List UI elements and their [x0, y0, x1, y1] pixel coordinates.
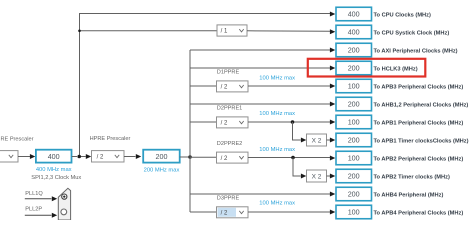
svg-text:To AXI Peripheral Clocks (MHz): To AXI Peripheral Clocks (MHz)	[374, 48, 458, 54]
svg-text:SPI1,2,3 Clock Mux: SPI1,2,3 Clock Mux	[31, 175, 81, 181]
svg-text:400 MHz max: 400 MHz max	[36, 167, 72, 173]
svg-text:To CPU Systick Clock (MHz): To CPU Systick Clock (MHz)	[374, 30, 450, 36]
svg-text:/ 2: / 2	[221, 156, 228, 162]
svg-text:100 MHz max: 100 MHz max	[259, 76, 295, 82]
svg-text:To APB1 Peripheral Clocks (MHz: To APB1 Peripheral Clocks (MHz)	[374, 120, 464, 126]
svg-text:HPRE Prescaler: HPRE Prescaler	[90, 136, 131, 142]
svg-text:D2PPRE2: D2PPRE2	[217, 141, 243, 147]
svg-text:100: 100	[348, 118, 360, 127]
svg-text:To APB3 Peripheral Clocks (MHz: To APB3 Peripheral Clocks (MHz)	[374, 84, 464, 90]
svg-text:100 MHz max: 100 MHz max	[259, 201, 295, 207]
svg-text:PLL1Q: PLL1Q	[25, 191, 43, 197]
svg-text:To CPU Clocks (MHz): To CPU Clocks (MHz)	[374, 12, 432, 18]
svg-text:200: 200	[156, 152, 168, 161]
svg-text:200: 200	[348, 172, 360, 181]
svg-text:100: 100	[348, 82, 360, 91]
svg-text:/ 2: / 2	[221, 121, 228, 127]
svg-text:200 MHz max: 200 MHz max	[144, 167, 180, 173]
svg-text:200: 200	[348, 190, 360, 199]
svg-text:To APB4 Peripheral Clocks (MHz: To APB4 Peripheral Clocks (MHz)	[374, 210, 464, 216]
svg-text:To HCLK3 (MHz): To HCLK3 (MHz)	[374, 66, 418, 72]
svg-text:To APB1 Timer clocksClocks (MH: To APB1 Timer clocksClocks (MHz)	[374, 138, 469, 144]
svg-text:/ 1: / 1	[221, 29, 228, 35]
svg-text:100: 100	[348, 154, 360, 163]
svg-text:PLL2P: PLL2P	[25, 207, 42, 213]
svg-text:X 2: X 2	[312, 137, 322, 144]
svg-text:D1PPRE: D1PPRE	[217, 70, 240, 76]
svg-text:/ 2: / 2	[97, 155, 104, 161]
svg-text:200: 200	[348, 64, 360, 73]
svg-text:200: 200	[348, 100, 360, 109]
svg-text:RE Prescaler: RE Prescaler	[1, 136, 34, 142]
svg-text:200: 200	[348, 46, 360, 55]
svg-text:To AHB1,2 Peripheral Clocks (M: To AHB1,2 Peripheral Clocks (MHz)	[374, 102, 469, 108]
svg-text:X 2: X 2	[312, 173, 322, 180]
svg-text:100 MHz max: 100 MHz max	[259, 111, 295, 117]
svg-text:/ 2: / 2	[221, 85, 228, 91]
svg-text:To APB2 Peripheral Clocks (MHz: To APB2 Peripheral Clocks (MHz)	[374, 156, 464, 162]
svg-text:100 MHz max: 100 MHz max	[259, 147, 295, 153]
svg-text:D2PPRE1: D2PPRE1	[217, 106, 243, 112]
svg-text:400: 400	[348, 10, 360, 19]
svg-text:To AHB4 Peripheral (MHz): To AHB4 Peripheral (MHz)	[374, 192, 444, 198]
svg-text:200: 200	[348, 136, 360, 145]
svg-text:To APB2 Timer clocks (MHz): To APB2 Timer clocks (MHz)	[374, 174, 450, 180]
svg-text:/ 2: / 2	[221, 211, 228, 217]
svg-text:D3PPRE: D3PPRE	[217, 196, 240, 202]
svg-text:400: 400	[48, 152, 60, 161]
svg-text:400: 400	[348, 28, 360, 37]
svg-text:100: 100	[348, 208, 360, 217]
